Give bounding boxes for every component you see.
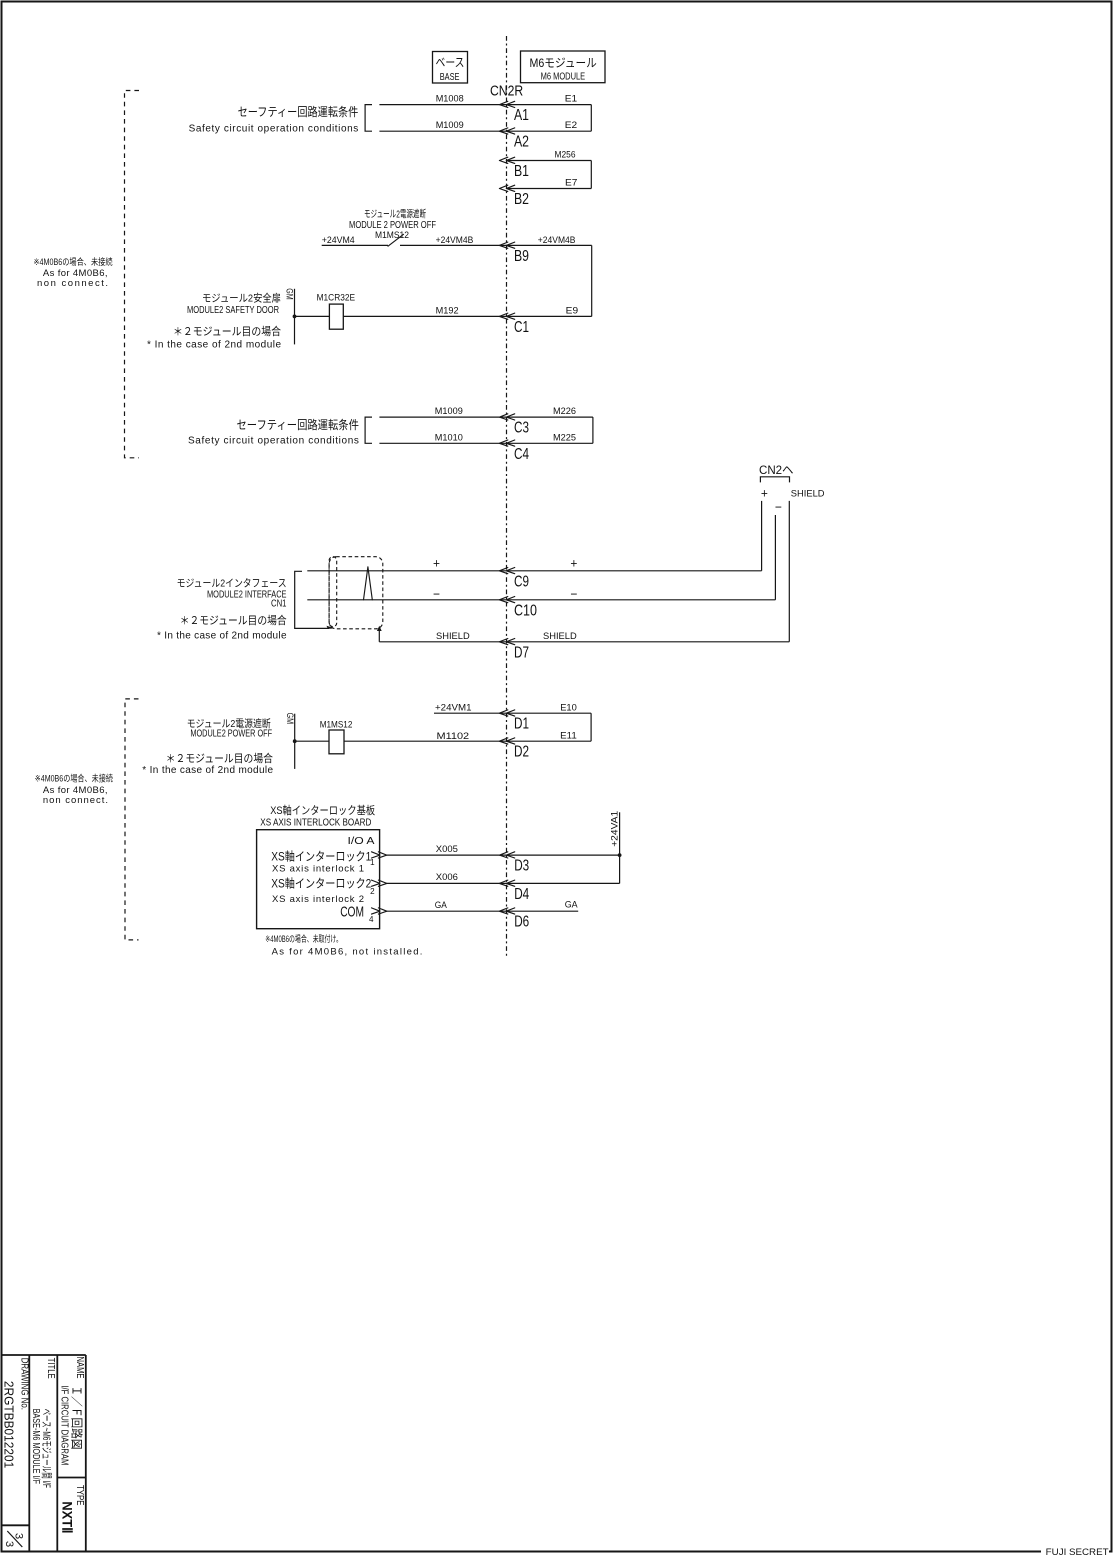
svg-text:I/F CIRCUIT DIAGRAM: I/F CIRCUIT DIAGRAM — [59, 1385, 70, 1465]
wire M192 (base side C1) — [343, 315, 506, 317]
svg-text:GM: GM — [285, 288, 295, 300]
svg-text:E7: E7 — [565, 178, 577, 189]
svg-text:+24VM4: +24VM4 — [322, 235, 355, 246]
connector boundary line CN2 (dash-dot) — [506, 36, 508, 958]
shield drop arrowhead — [377, 626, 382, 631]
box XS axis interlock board — [257, 830, 380, 929]
arrow at pin B2 — [499, 185, 514, 191]
svg-text:GA: GA — [435, 900, 448, 911]
wire jumper M226-M225 module side — [592, 417, 594, 443]
wire +24VM4 — [322, 244, 388, 246]
svg-text:TITLE: TITLE — [45, 1358, 56, 1379]
title block rotated content — [1, 1357, 85, 1548]
svg-text:D2: D2 — [514, 744, 529, 761]
bracket safety group top — [365, 105, 372, 132]
svg-text:CN2ヘ: CN2ヘ — [759, 463, 794, 477]
svg-text:−: − — [570, 586, 577, 601]
svg-text:4: 4 — [369, 914, 374, 924]
svg-text:C10: C10 — [514, 602, 537, 619]
arrow at pin B9 — [499, 242, 514, 248]
svg-text:+24VM1: +24VM1 — [435, 702, 472, 713]
wire X006 (module side) — [507, 882, 620, 884]
svg-text:＊２モジュール目の場合: ＊２モジュール目の場合 — [173, 324, 281, 338]
wire GA (module side) — [507, 910, 579, 912]
svg-text:M1009: M1009 — [436, 120, 464, 131]
wire minus (base side C10) — [307, 599, 506, 601]
svg-text:2: 2 — [370, 886, 375, 896]
arrow at pin D7 — [499, 639, 514, 645]
svg-text:E2: E2 — [565, 120, 577, 131]
svg-text:Safety circuit operation condi: Safety circuit operation conditions — [188, 436, 359, 447]
wire X005 (module side) to +24VA1 — [507, 854, 620, 856]
svg-text:A2: A2 — [514, 134, 529, 151]
arrow at pin D4 — [499, 880, 514, 886]
wire M1010 (base side C4) — [379, 442, 506, 444]
svg-text:XS axis interlock 1: XS axis interlock 1 — [272, 864, 364, 875]
twisted pair marker — [364, 567, 373, 600]
svg-text:CN2R: CN2R — [490, 83, 523, 100]
svg-text:As for 4M0B6, not installed.: As for 4M0B6, not installed. — [272, 946, 423, 957]
bracket iface with pointer arm — [295, 571, 329, 628]
wire X005 (base side D3) — [387, 854, 507, 856]
wire CN2 shield vertical — [788, 501, 790, 642]
svg-text:SHIELD: SHIELD — [436, 631, 470, 642]
svg-text:Ｉ／Ｆ回路図: Ｉ／Ｆ回路図 — [69, 1386, 84, 1450]
junction dot pwr2 — [293, 739, 297, 743]
svg-text:XS軸インターロック2: XS軸インターロック2 — [271, 876, 371, 890]
white gap for FUJI SECRET — [1041, 1547, 1109, 1556]
wire E7 (module side B2) — [507, 188, 592, 190]
svg-text:M6モジュール: M6モジュール — [530, 56, 597, 70]
wire GA (base side D6) — [387, 910, 507, 912]
pin arrow COM — [372, 908, 387, 914]
switch M1MS12 blade — [388, 234, 404, 246]
svg-text:E1: E1 — [565, 94, 577, 105]
wire M1102 left — [295, 740, 329, 742]
wire X006 (base side D4) — [387, 882, 507, 884]
svg-text:NXTⅡ: NXTⅡ — [59, 1501, 75, 1533]
svg-text:D4: D4 — [514, 886, 529, 903]
page number slash — [7, 1531, 22, 1547]
arrow at pin C4 — [499, 440, 514, 446]
svg-text:モジュール2安全扉: モジュール2安全扉 — [202, 291, 281, 304]
svg-text:E11: E11 — [560, 730, 577, 741]
arrow at pin B1 — [499, 157, 514, 163]
wire jumper E10-E11 module side — [590, 713, 592, 741]
svg-text:COM: COM — [340, 904, 364, 921]
svg-text:1: 1 — [370, 857, 375, 867]
svg-text:XS軸インターロック1: XS軸インターロック1 — [271, 849, 371, 863]
box M6 MODULE — [521, 51, 606, 83]
svg-text:XS軸インターロック基板: XS軸インターロック基板 — [270, 803, 375, 817]
node stub pwr2 — [294, 714, 296, 769]
svg-text:B1: B1 — [514, 163, 529, 180]
arrow at pin D2 — [499, 738, 514, 744]
wire M192 left — [295, 315, 330, 317]
wire plus (module side) — [507, 570, 762, 572]
svg-text:M1MS12: M1MS12 — [375, 230, 409, 241]
svg-text:M1010: M1010 — [435, 432, 463, 443]
svg-text:MODULE2 SAFETY DOOR: MODULE2 SAFETY DOOR — [187, 305, 279, 316]
wire jumper B9-E9 module side — [591, 245, 593, 316]
svg-text:M1008: M1008 — [436, 94, 464, 105]
svg-text:※4M0B6の場合、未取付け。: ※4M0B6の場合、未取付け。 — [265, 933, 342, 944]
svg-text:D6: D6 — [514, 914, 529, 931]
net +24VA1 vertical — [619, 812, 621, 883]
svg-text:+24VA1: +24VA1 — [610, 811, 621, 847]
svg-text:+: + — [570, 556, 577, 571]
wire plus (base side C9) — [307, 570, 506, 572]
wire +24VM4B (module side) — [507, 244, 592, 246]
arrow at pin A2 — [499, 128, 514, 134]
title block frame — [1, 1355, 86, 1552]
svg-text:M1CR32E: M1CR32E — [317, 293, 356, 304]
svg-text:+: + — [761, 486, 768, 501]
svg-text:セーフティー回路運転条件: セーフティー回路運転条件 — [237, 417, 359, 432]
svg-text:Safety circuit operation condi: Safety circuit operation conditions — [189, 124, 359, 135]
wire shield (module side) — [507, 641, 790, 643]
svg-text:−: − — [433, 586, 440, 601]
dashed bracket non-connect group 2 — [125, 699, 139, 940]
svg-text:CN1: CN1 — [271, 599, 287, 610]
svg-text:non connect.: non connect. — [43, 795, 108, 806]
svg-text:* In the case of 2nd module: * In the case of 2nd module — [147, 339, 281, 350]
svg-text:E9: E9 — [566, 305, 578, 316]
wire +24VM1 (base side D1) — [434, 712, 507, 714]
pointer arrowhead at cable — [327, 626, 336, 629]
arrow at pin C10 — [499, 597, 514, 603]
svg-text:X006: X006 — [436, 872, 458, 883]
svg-text:モジュール2電源遮断: モジュール2電源遮断 — [364, 207, 426, 220]
svg-text:+24VM4B: +24VM4B — [436, 235, 474, 246]
wire +24VM4B (base side B9) — [400, 244, 507, 246]
svg-text:* In the case of 2nd module: * In the case of 2nd module — [157, 630, 287, 641]
arrow at pin C3 — [499, 414, 514, 420]
svg-text:X005: X005 — [436, 844, 458, 855]
svg-text:M1009: M1009 — [435, 406, 463, 417]
svg-text:2RGTBB012201: 2RGTBB012201 — [1, 1381, 16, 1468]
svg-text:C4: C4 — [514, 446, 529, 463]
dashed bracket non-connect group 1 — [125, 91, 140, 458]
box BASE — [433, 52, 468, 84]
svg-text:* In the case of 2nd module: * In the case of 2nd module — [142, 765, 273, 776]
svg-text:XS AXIS INTERLOCK BOARD: XS AXIS INTERLOCK BOARD — [260, 818, 371, 829]
wire shield (base side D7) — [379, 641, 506, 643]
svg-text:M1MS12: M1MS12 — [320, 719, 353, 730]
svg-text:M226: M226 — [553, 406, 576, 417]
junction dot safety door — [293, 315, 297, 319]
wire E9 (module side) — [507, 315, 592, 317]
arrow at pin D6 — [499, 908, 514, 914]
arrow at pin D1 — [499, 710, 514, 716]
svg-text:M192: M192 — [436, 305, 459, 316]
svg-text:+: + — [433, 556, 440, 571]
junction dot +24VA1 — [618, 853, 622, 857]
svg-text:B2: B2 — [514, 191, 529, 208]
wire M256 (module side B1) — [507, 160, 592, 162]
wire M1009 (base side C3) — [379, 416, 506, 418]
wire minus (module side) — [507, 599, 776, 601]
svg-text:SHIELD: SHIELD — [791, 488, 825, 499]
svg-text:NAME: NAME — [74, 1357, 85, 1379]
wire M1009 (base side A2) — [379, 130, 506, 132]
svg-text:M1102: M1102 — [437, 731, 470, 742]
wire jumper E1-E2 module side — [590, 105, 592, 132]
svg-text:C3: C3 — [514, 420, 529, 437]
wire jumper B1-B2 module side — [590, 161, 592, 189]
wire CN2 minus vertical — [774, 515, 776, 600]
svg-text:D1: D1 — [514, 716, 529, 733]
arrow at pin A1 — [499, 101, 514, 107]
svg-text:+24VM4B: +24VM4B — [538, 235, 576, 246]
svg-text:GM: GM — [285, 713, 295, 725]
svg-text:3: 3 — [3, 1541, 15, 1547]
node stub safety door — [294, 289, 296, 345]
svg-text:A1: A1 — [514, 107, 529, 124]
wire E1 (module side) — [507, 104, 592, 106]
arrow at pin D3 — [499, 852, 514, 858]
wire E2 (module side) — [507, 130, 592, 132]
svg-text:※4M0B6の場合、未接続: ※4M0B6の場合、未接続 — [35, 772, 113, 783]
svg-text:C9: C9 — [514, 573, 529, 590]
wire E11 (module side) — [507, 740, 592, 742]
bracket CN2 — [760, 477, 789, 483]
svg-text:DRAWING No.: DRAWING No. — [18, 1358, 29, 1410]
wire M226 (module side) — [507, 416, 593, 418]
shield drop from cable — [378, 628, 380, 642]
svg-text:M225: M225 — [553, 432, 576, 443]
svg-text:D7: D7 — [514, 644, 529, 661]
wire CN2 plus vertical — [761, 501, 763, 571]
wire E10 (module side) — [507, 712, 592, 714]
svg-text:SHIELD: SHIELD — [543, 631, 577, 642]
svg-text:E10: E10 — [560, 702, 577, 713]
arrow at pin C1 — [499, 313, 514, 319]
svg-text:＊２モジュール目の場合: ＊２モジュール目の場合 — [180, 613, 287, 627]
wire M1102 (base side D2) — [344, 740, 507, 742]
wire M225 (module side) — [507, 442, 593, 444]
svg-text:C1: C1 — [514, 319, 529, 336]
svg-text:ベース: ベース — [436, 56, 465, 70]
cable core capsule (dashed) — [329, 557, 337, 627]
svg-text:BASE-M6 MODULE I/F: BASE-M6 MODULE I/F — [30, 1409, 41, 1484]
wire M1008 (base side A1) — [379, 104, 506, 106]
svg-text:B9: B9 — [514, 248, 529, 265]
switch M1MS12 body pwr2 — [329, 730, 344, 754]
svg-text:M6 MODULE: M6 MODULE — [541, 71, 586, 83]
svg-text:D3: D3 — [514, 858, 529, 875]
svg-text:non connect.: non connect. — [37, 278, 108, 289]
cable sheath outline (dashed) — [329, 557, 383, 629]
svg-text:＊２モジュール目の場合: ＊２モジュール目の場合 — [166, 751, 273, 765]
bracket safety group mid — [365, 417, 372, 443]
svg-text:モジュール2インタフェース: モジュール2インタフェース — [177, 577, 287, 589]
svg-text:GA: GA — [565, 899, 579, 910]
svg-text:MODULE2 POWER OFF: MODULE2 POWER OFF — [190, 729, 272, 740]
svg-text:FUJI SECRET: FUJI SECRET — [1046, 1547, 1109, 1556]
pin arrow interlock1 — [372, 852, 387, 858]
svg-text:BASE: BASE — [440, 71, 460, 83]
svg-text:セーフティー回路運転条件: セーフティー回路運転条件 — [238, 104, 359, 119]
pin arrow interlock2 — [372, 880, 387, 886]
svg-text:※4M0B6の場合、未接続: ※4M0B6の場合、未接続 — [34, 256, 113, 267]
svg-text:M256: M256 — [555, 150, 576, 161]
arrow at pin C9 — [499, 568, 514, 574]
relay contact M1CR32E body — [329, 304, 343, 329]
svg-text:I/O A: I/O A — [348, 836, 375, 847]
svg-text:−: − — [775, 500, 782, 515]
